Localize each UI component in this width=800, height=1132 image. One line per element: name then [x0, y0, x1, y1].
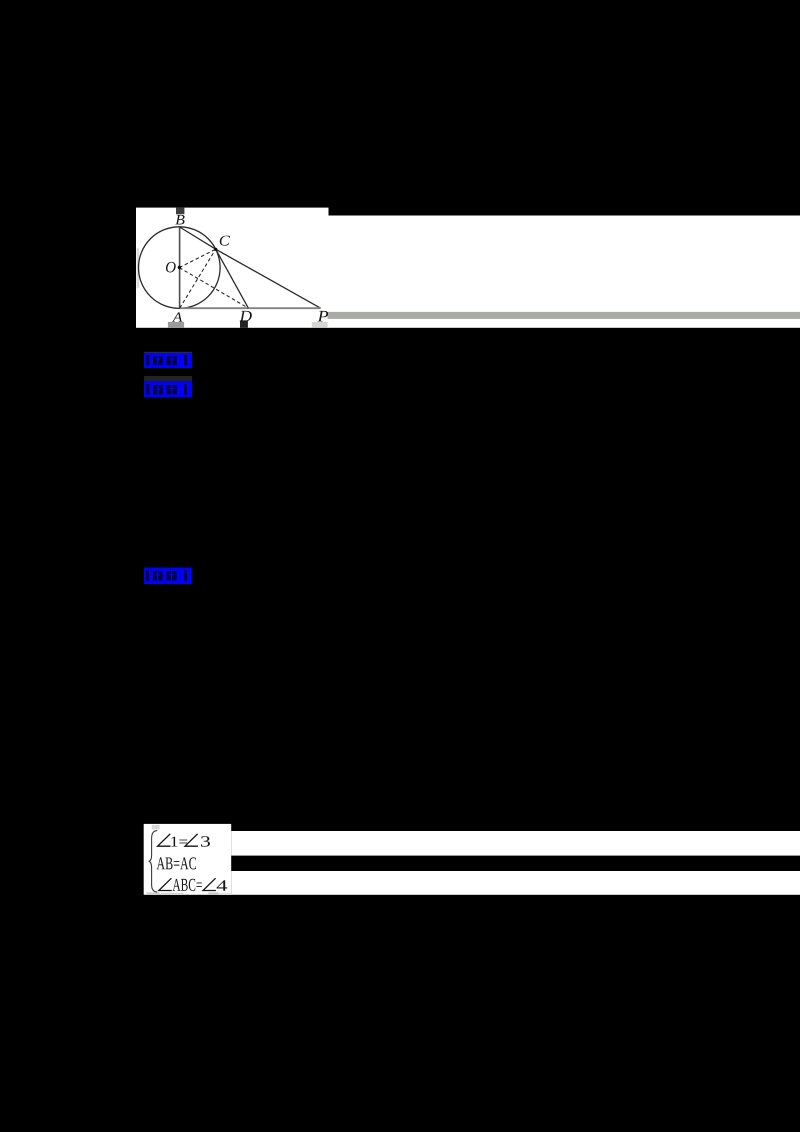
equation image white box	[144, 824, 232, 895]
label P	[318, 311, 329, 321]
blue tag 2 (analysis)	[144, 376, 192, 381]
equation white extension band 2	[231, 871, 800, 895]
chord BC	[180, 227, 216, 249]
blue tag 1 (answer)	[144, 352, 192, 353]
line CD	[216, 249, 249, 308]
left curly brace	[149, 831, 158, 893]
equation line 1: angle 1 = angle 3	[158, 834, 171, 846]
line AP	[180, 307, 321, 309]
equation white extension band 1	[231, 831, 800, 856]
grey fragments along equation box bottom	[147, 892, 160, 895]
line CP	[216, 249, 321, 308]
smudge below A	[168, 322, 184, 328]
smudge above B	[176, 208, 184, 215]
blue tag 3 (comment)	[144, 568, 192, 585]
equation line 3: angle ABC = angle 4	[159, 878, 172, 890]
grey square artifact top-left of equation box	[152, 825, 160, 830]
left edge light streak artifact	[137, 248, 140, 288]
center dot O	[178, 266, 181, 269]
equation line 2: AB=AC	[157, 857, 166, 869]
label O	[166, 262, 176, 273]
label D	[239, 311, 251, 322]
figure image white box	[136, 208, 329, 328]
smudge below P	[312, 322, 328, 327]
dashed AC	[180, 249, 216, 308]
dashed OC	[179, 249, 215, 267]
label C	[220, 236, 230, 246]
junction dot C	[214, 248, 217, 251]
label A	[172, 312, 182, 321]
smudge below D	[240, 320, 248, 327]
diameter AB	[179, 227, 181, 308]
circle O	[139, 227, 221, 309]
figure white extension band	[328, 216, 800, 328]
dashed OD	[179, 268, 248, 309]
grey scan band right of P	[328, 312, 800, 319]
label B	[175, 215, 184, 225]
